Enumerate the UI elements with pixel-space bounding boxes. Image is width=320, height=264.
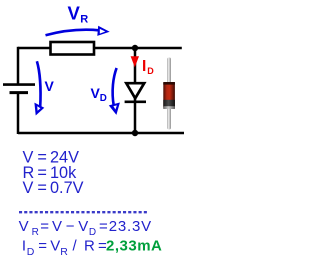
svg-text:V: V: [68, 3, 81, 24]
arrow V_R: [46, 26, 110, 36]
wire diode branch: [134, 48, 137, 133]
battery V1 long plate: [3, 83, 35, 86]
node top junction: [132, 45, 138, 51]
battery V1 short plate: [10, 91, 29, 94]
svg-text:R: R: [80, 13, 88, 25]
node bottom junction: [132, 130, 138, 136]
svg-text:/: /: [73, 238, 78, 255]
svg-text:I: I: [142, 58, 146, 75]
wire top: [18, 47, 182, 50]
svg-text:=: =: [38, 238, 47, 255]
svg-text:D: D: [147, 66, 154, 76]
wire left upper: [17, 47, 20, 84]
svg-text:−: −: [66, 218, 75, 235]
svg-text:V: V: [52, 218, 62, 235]
diode D symbol: [125, 83, 146, 102]
wire left lower: [17, 93, 20, 134]
arrow V (down, at source): [34, 61, 44, 115]
svg-text:=: =: [37, 179, 47, 197]
svg-text:R: R: [60, 246, 68, 258]
svg-text:R: R: [84, 238, 95, 255]
svg-text:V: V: [78, 218, 88, 235]
svg-text:V: V: [19, 218, 29, 235]
photo diode component: body: [163, 82, 175, 109]
formula VR = V - VD = 23.3V: [19, 218, 152, 238]
photo diode component: bottom lead: [167, 107, 171, 130]
formula ID = VR / R = 2,33mA: [22, 238, 162, 258]
label V_R: [68, 3, 89, 26]
label V_D: [91, 85, 107, 104]
label V (source voltage): [45, 78, 55, 94]
svg-text:D: D: [100, 93, 107, 104]
svg-text:V: V: [45, 78, 55, 94]
svg-text:V: V: [23, 179, 34, 197]
label I_D: [142, 58, 154, 76]
svg-text:D: D: [89, 227, 96, 238]
svg-text:D: D: [27, 246, 35, 258]
svg-text:=: =: [40, 218, 49, 235]
resistor R: [51, 42, 95, 55]
svg-text:=: =: [99, 218, 108, 235]
wire bottom: [18, 132, 184, 135]
svg-text:2,33mA: 2,33mA: [106, 238, 162, 255]
current arrow ID (red): [131, 56, 139, 67]
svg-text:I: I: [22, 238, 26, 255]
svg-text:V: V: [50, 238, 60, 255]
photo diode component: top lead: [167, 58, 171, 84]
svg-text:R: R: [32, 227, 39, 238]
svg-text:23.3V: 23.3V: [109, 218, 152, 235]
dashed separator: [19, 211, 149, 213]
svg-text:0.7V: 0.7V: [50, 179, 84, 197]
arrow V_D (down, at diode): [109, 68, 120, 115]
